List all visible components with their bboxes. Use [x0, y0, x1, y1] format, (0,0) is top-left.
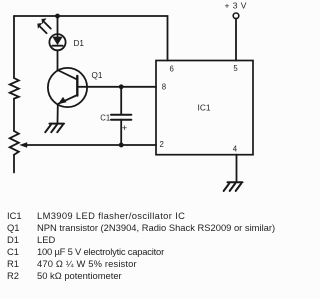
svg-text:8: 8: [162, 82, 166, 91]
parts list row R1: [7, 258, 137, 269]
wire R2 wiper to pin 2 of IC1: [26, 144, 156, 146]
svg-text:+: +: [122, 123, 128, 134]
svg-text:Q1: Q1: [7, 222, 20, 233]
wire LED anode: [57, 16, 59, 36]
parts list row C1: [7, 246, 164, 257]
svg-text:R1: R1: [7, 258, 19, 269]
parts list row IC1: [7, 210, 185, 221]
capacitor C1: [111, 87, 131, 145]
svg-text:470 Ω ¼ W 5% resistor: 470 Ω ¼ W 5% resistor: [37, 258, 137, 269]
svg-text:+ 3 V: + 3 V: [225, 0, 247, 10]
wire LED cathode to Q1 collector: [57, 50, 59, 70]
potentiometer R2: [10, 131, 28, 155]
svg-text:C1: C1: [100, 113, 110, 122]
parts list row D1: [7, 234, 55, 245]
transistor Q1: [48, 68, 87, 107]
wire Q1 emitter to ground: [57, 104, 59, 123]
svg-text:6: 6: [170, 65, 174, 74]
svg-text:IC1: IC1: [198, 103, 211, 113]
wire +3V to pin 5 of IC1: [235, 19, 237, 61]
wire left rail upper: [13, 16, 15, 78]
svg-text:D1: D1: [7, 234, 19, 245]
svg-text:4: 4: [233, 144, 238, 153]
svg-text:R2: R2: [7, 270, 19, 281]
svg-text:2: 2: [160, 140, 164, 149]
wire left rail between R1 and R2: [13, 99, 15, 131]
node junction wiper wire / C1 bottom: [119, 143, 124, 148]
op-amp/IC U1 body IC1: [156, 61, 253, 155]
terminal +3V: [233, 13, 239, 19]
svg-text:5: 5: [233, 64, 238, 73]
resistor R1: [10, 78, 19, 99]
LED D1: [37, 18, 65, 50]
wire Q1 base to pin 8 of IC1: [77, 86, 156, 88]
parts list row Q1: [7, 222, 275, 233]
svg-text:50 kΩ potentiometer: 50 kΩ potentiometer: [37, 270, 122, 281]
svg-text:LM3909 LED flasher/oscillator: LM3909 LED flasher/oscillator IC: [37, 210, 185, 221]
wire pin 4 to ground: [236, 155, 238, 183]
svg-text:IC1: IC1: [7, 210, 22, 221]
ground (pin 4): [224, 182, 243, 191]
node junction top rail / LED branch: [55, 14, 60, 19]
svg-text:100 µF 5 V electrolytic capaci: 100 µF 5 V electrolytic capacitor: [37, 246, 164, 257]
node junction base wire / C1 top: [119, 84, 124, 89]
ground (transistor emitter): [45, 124, 64, 133]
svg-text:NPN transistor (2N3904, Radio: NPN transistor (2N3904, Radio Shack RS20…: [37, 222, 275, 233]
wire R2 bottom stub: [13, 155, 15, 173]
svg-text:LED: LED: [37, 234, 55, 245]
parts list row R2: [7, 270, 122, 281]
svg-text:C1: C1: [7, 246, 19, 257]
svg-text:Q1: Q1: [92, 71, 103, 80]
svg-text:D1: D1: [74, 39, 85, 48]
wire top rail from left rail to pin 6 of IC1: [14, 16, 168, 61]
